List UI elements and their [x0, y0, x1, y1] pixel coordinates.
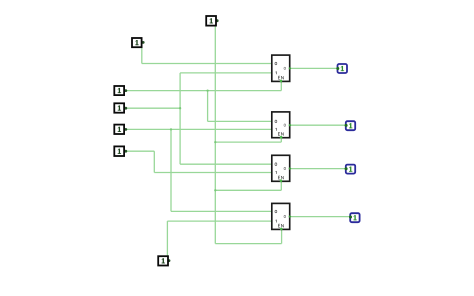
- wire net I2 vertical segment: [141, 44, 143, 64]
- multiplexer U2 body: [272, 112, 290, 138]
- wire U2 output to O2: [290, 124, 346, 126]
- input pin I1 value 1: [210, 18, 213, 23]
- wire net I7 vertical from pin: [166, 221, 168, 257]
- multiplexer U4 body: [272, 203, 290, 229]
- input pin I5 nub: [124, 128, 127, 131]
- U3 pin label 0: [275, 163, 277, 166]
- output pin O1 value 1: [341, 66, 344, 71]
- wire U1 output to O1: [290, 67, 338, 69]
- U4 pin label EN: [278, 224, 283, 227]
- input pin I4: [114, 103, 124, 112]
- wire EN4 branch horizontal: [215, 243, 281, 245]
- U2 pin label 0: [275, 120, 277, 123]
- wire U3 output to O3: [290, 168, 346, 170]
- U2 pin label 1: [275, 128, 278, 131]
- output pin O2: [346, 121, 355, 130]
- U2 pin label EN: [278, 132, 283, 135]
- junction dot EN2 tap: [214, 141, 216, 143]
- multiplexer U1 body: [272, 55, 290, 81]
- wire net I1 main vertical: [214, 22, 216, 244]
- wire net I4 horizontal from pin: [126, 107, 181, 109]
- U3 output label 0: [284, 167, 286, 169]
- wire EN4 vertical to U4: [281, 229, 283, 243]
- U1 output label 0: [284, 67, 286, 69]
- wire EN2 branch horizontal: [215, 141, 281, 143]
- U4 pin label 1: [275, 220, 278, 223]
- wire net I4 horizontal to U3 in0: [180, 163, 272, 165]
- wire net I4 vertical trunk: [179, 73, 181, 164]
- input pin I3: [114, 86, 124, 95]
- output pin O3: [346, 165, 355, 174]
- input pin I6 value 1: [118, 149, 121, 154]
- U3 pin label 1: [275, 171, 278, 174]
- U2 east port dot: [289, 124, 291, 126]
- U1 south port dot: [280, 80, 283, 83]
- input pin I4 value 1: [118, 105, 121, 110]
- wire net I5 branch horizontal to U4 in0: [171, 210, 272, 212]
- input pin I2: [132, 38, 142, 47]
- wire net I2 horizontal to U1 in0: [142, 63, 272, 65]
- U3 east port dot: [289, 167, 291, 169]
- wire net I5 branch vertical: [170, 129, 172, 211]
- input pin I1: [206, 16, 216, 26]
- U4 output label 0: [284, 215, 286, 217]
- U1 east port dot: [289, 67, 291, 69]
- wire U4 output to O4: [290, 216, 351, 218]
- output pin O2 west port dot: [345, 124, 348, 127]
- input pin I6: [114, 146, 124, 156]
- output pin O4: [350, 213, 359, 222]
- wire net I6 vertical segment: [153, 151, 155, 172]
- U1 pin label EN: [278, 76, 283, 79]
- wire net I3 branch horizontal to U2 in0: [208, 120, 272, 122]
- input pin I1 nub: [216, 19, 219, 22]
- wire EN3 vertical to U3: [280, 181, 282, 190]
- U4 south port dot: [280, 228, 283, 231]
- output pin O3 west port dot: [345, 167, 348, 170]
- input pin I6 nub: [124, 150, 127, 153]
- U3 pin label EN: [278, 176, 283, 179]
- output pin O4 west port dot: [349, 216, 352, 219]
- U1 pin label 1: [275, 72, 278, 75]
- wire net I3 branch vertical: [207, 91, 209, 122]
- U2 south port dot: [280, 136, 283, 139]
- output pin O3 value 1: [349, 167, 352, 172]
- wire net I7 horizontal to U4 in1: [167, 220, 271, 222]
- U4 pin label 0: [275, 210, 277, 213]
- U3 south port dot: [280, 179, 283, 182]
- junction dot EN3 tap: [214, 189, 216, 191]
- input pin I2 nub: [142, 41, 145, 44]
- input pin I3 nub: [124, 89, 127, 92]
- output pin O4 value 1: [353, 215, 356, 220]
- wire net I5 horizontal to U2 in1: [126, 128, 272, 130]
- input pin I2 value 1: [135, 40, 138, 45]
- wire net I4 horizontal to U1 in1: [180, 72, 272, 74]
- output pin O1 west port dot: [336, 67, 339, 70]
- U2 output label 0: [284, 124, 286, 126]
- wire net I6 horizontal from pin: [126, 150, 155, 152]
- input pin I7: [158, 256, 168, 265]
- output pin O1: [338, 64, 348, 73]
- U1 pin label 0: [275, 62, 277, 65]
- wire net I6 horizontal to U3 in1: [154, 172, 271, 174]
- junction dot net I4 branch: [179, 107, 181, 109]
- input pin I7 value 1: [162, 258, 165, 263]
- wire EN3 branch horizontal: [215, 189, 281, 191]
- input pin I7 nub: [168, 259, 171, 262]
- input pin I5 value 1: [118, 127, 121, 132]
- input pin I3 value 1: [118, 88, 121, 93]
- wire EN1 vertical to U1: [280, 81, 282, 90]
- U4 east port dot: [289, 215, 291, 217]
- input pin I4 nub: [124, 107, 127, 110]
- wire net I3 horizontal to EN1 corner: [126, 90, 282, 92]
- input pin I5: [114, 125, 124, 134]
- multiplexer U3 body: [272, 155, 290, 181]
- output pin O2 value 1: [349, 123, 352, 128]
- wire EN2 vertical to U2: [280, 138, 282, 143]
- junction dot net I5 branch: [170, 128, 172, 130]
- junction dot net I3 branch: [206, 89, 208, 91]
